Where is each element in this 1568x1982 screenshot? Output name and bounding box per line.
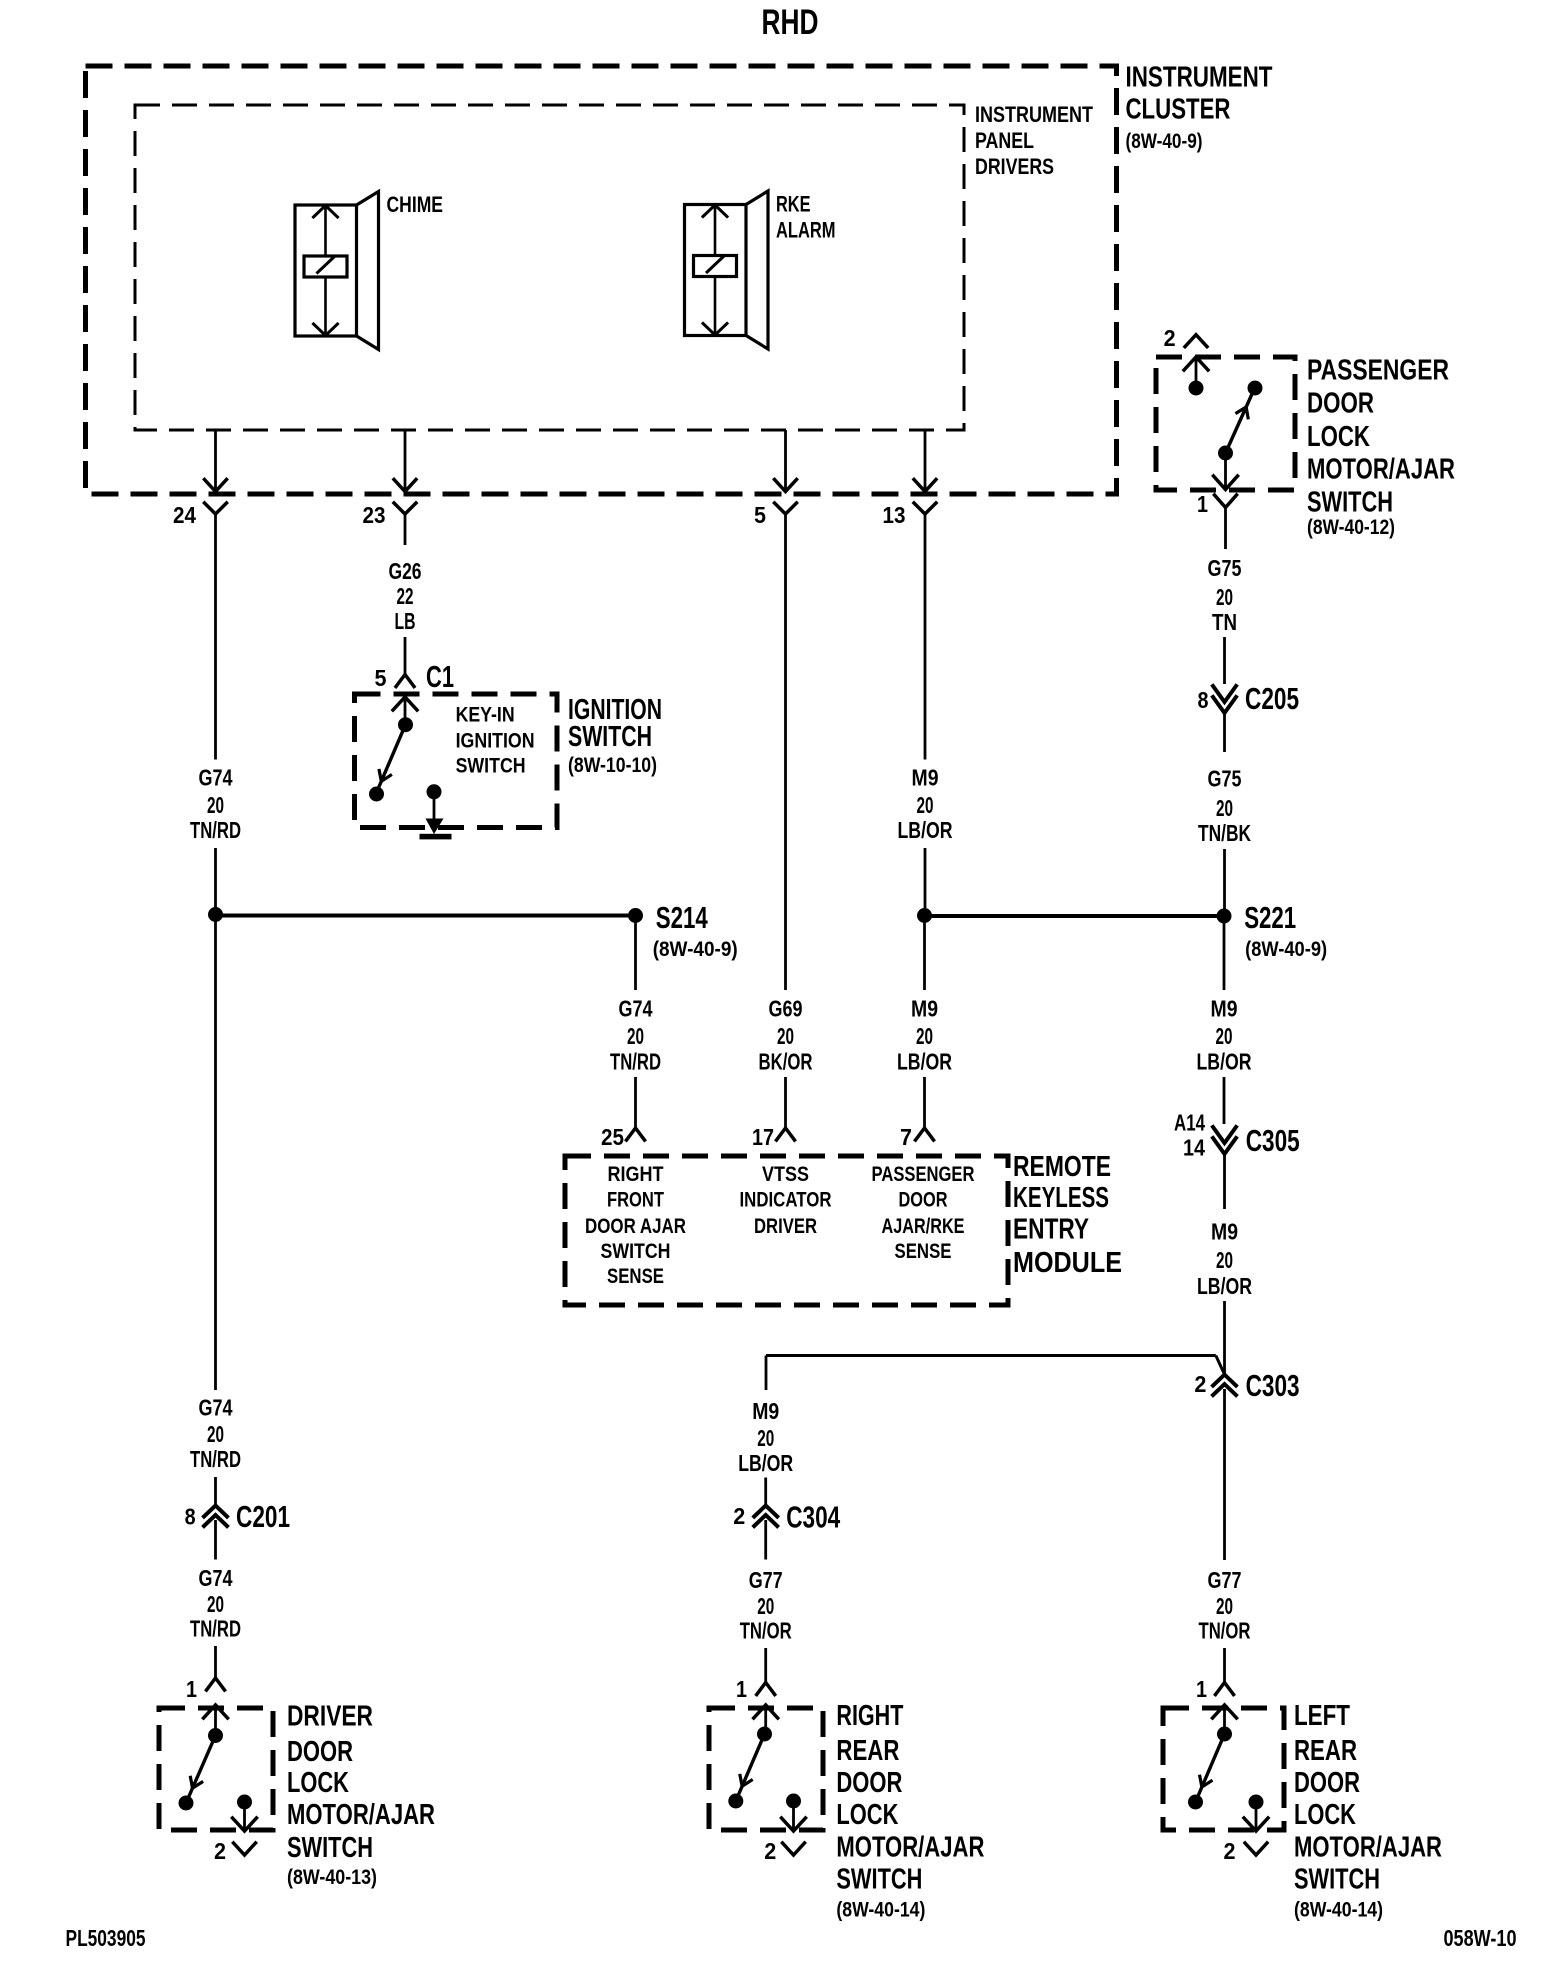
label REMOTE KEYLESS ENTRY MODULE — [1013, 1151, 1122, 1279]
svg-text:TN: TN — [1212, 609, 1237, 635]
passenger switch lower dot — [1218, 446, 1233, 461]
key-in ignition switch box — [355, 694, 558, 828]
wire to right rear door switch — [764, 1648, 767, 1683]
svg-text:LB/OR: LB/OR — [738, 1450, 793, 1476]
right rear door lock motor/ajar switch box — [709, 1708, 823, 1830]
instrument cluster outer box — [86, 66, 1117, 494]
svg-text:C205: C205 — [1245, 681, 1299, 716]
splice junction dot on G74 — [208, 907, 223, 922]
svg-text:SWITCH: SWITCH — [568, 721, 652, 753]
svg-text:LEFT: LEFT — [1294, 1700, 1350, 1732]
svg-text:BK/OR: BK/OR — [759, 1049, 813, 1075]
svg-text:20: 20 — [757, 1425, 774, 1451]
pin 2 stub below driver box — [234, 1843, 256, 1855]
splice dot S214 — [628, 908, 643, 923]
svg-text:TN/RD: TN/RD — [610, 1049, 661, 1075]
wire G26 segment — [404, 514, 407, 545]
wire below C304 — [764, 1520, 767, 1560]
svg-text:DRIVERS: DRIVERS — [975, 154, 1054, 179]
svg-text:1: 1 — [736, 1676, 747, 1702]
wire label G26 22 LB — [389, 558, 422, 634]
passenger door lock motor/ajar switch box — [1156, 357, 1295, 490]
svg-text:SWITCH: SWITCH — [601, 1240, 671, 1263]
wire label G74 20 TN/RD (S214 branch) — [610, 996, 661, 1075]
driver switch common dot — [208, 1728, 223, 1743]
svg-text:SWITCH: SWITCH — [836, 1864, 922, 1896]
driver switch pin 1 arrow — [204, 1705, 228, 1736]
svg-text:G75: G75 — [1208, 555, 1242, 581]
svg-text:C305: C305 — [1246, 1123, 1300, 1158]
ignition switch common dot — [398, 717, 413, 732]
wire below S221 — [1223, 916, 1226, 990]
label IGNITION SWITCH (8W-10-10) — [568, 694, 662, 777]
svg-text:20: 20 — [917, 792, 934, 818]
wire label M9 20 LB/OR (upper) — [898, 765, 953, 844]
svg-text:SWITCH: SWITCH — [287, 1832, 373, 1864]
svg-text:SWITCH: SWITCH — [1294, 1864, 1380, 1896]
right rear switch pin 2 dot — [786, 1794, 801, 1809]
svg-text:TN/OR: TN/OR — [740, 1618, 792, 1644]
svg-text:REAR: REAR — [836, 1735, 899, 1767]
wire to RKE pin 7 — [923, 1077, 926, 1128]
svg-text:REMOTE: REMOTE — [1013, 1151, 1111, 1183]
svg-text:LB/OR: LB/OR — [897, 1049, 952, 1075]
wire below M9 splice — [923, 916, 926, 990]
svg-text:G77: G77 — [749, 1567, 783, 1593]
connector C305 chevrons — [1213, 1127, 1236, 1143]
svg-text:2: 2 — [733, 1503, 745, 1529]
svg-text:5: 5 — [754, 502, 766, 528]
svg-text:C304: C304 — [786, 1500, 841, 1535]
svg-text:13: 13 — [883, 502, 906, 528]
svg-text:G75: G75 — [1208, 766, 1242, 792]
svg-text:MOTOR/AJAR: MOTOR/AJAR — [836, 1832, 984, 1864]
remote keyless entry module box — [565, 1156, 1008, 1305]
pin 25 fork at RKE module — [627, 1128, 645, 1140]
left rear switch pin 2 dot — [1249, 1795, 1264, 1810]
svg-text:INDICATOR: INDICATOR — [740, 1189, 832, 1212]
svg-text:S214: S214 — [656, 900, 709, 935]
pin 1 fork below passenger box — [1215, 495, 1237, 508]
wire below C303 — [1223, 1389, 1226, 1560]
svg-text:DOOR: DOOR — [836, 1767, 902, 1799]
pin 13 connector fork — [914, 503, 936, 514]
svg-text:(8W-40-9): (8W-40-9) — [653, 938, 738, 961]
connector C304 chevrons — [754, 1506, 777, 1517]
label LEFT REAR DOOR LOCK MOTOR/AJAR SWITCH (8W-40-14) — [1294, 1700, 1442, 1922]
svg-text:(8W-10-10): (8W-10-10) — [568, 754, 657, 777]
svg-text:MODULE: MODULE — [1013, 1247, 1122, 1279]
svg-text:IGNITION: IGNITION — [456, 730, 535, 753]
RKE alarm speaker symbol — [685, 191, 769, 349]
left rear switch blade — [1196, 1734, 1225, 1802]
svg-text:(8W-40-9): (8W-40-9) — [1126, 130, 1203, 153]
left rear switch throw dot — [1188, 1795, 1203, 1810]
driver switch throw dot — [179, 1796, 194, 1811]
svg-text:LB/OR: LB/OR — [1197, 1049, 1252, 1075]
left rear door lock motor/ajar switch box — [1163, 1708, 1284, 1830]
svg-text:S221: S221 — [1244, 900, 1296, 935]
svg-text:MOTOR/AJAR: MOTOR/AJAR — [1307, 454, 1455, 486]
svg-text:14: 14 — [1183, 1135, 1205, 1161]
left rear switch pin 2 arrow out — [1244, 1802, 1268, 1831]
wire above C303 — [1223, 1301, 1226, 1374]
svg-text:M9: M9 — [1211, 1219, 1238, 1245]
label DRIVER DOOR LOCK MOTOR/AJAR SWITCH (8W-40-13) — [287, 1701, 435, 1890]
svg-text:CLUSTER: CLUSTER — [1126, 94, 1231, 126]
svg-text:20: 20 — [916, 1023, 933, 1049]
svg-text:PL503905: PL503905 — [66, 1925, 146, 1951]
svg-text:G69: G69 — [769, 996, 803, 1022]
pin 2 stub above passenger box — [1185, 335, 1207, 347]
svg-text:2: 2 — [1194, 1371, 1206, 1397]
svg-text:PANEL: PANEL — [975, 128, 1034, 153]
svg-text:23: 23 — [363, 502, 386, 528]
svg-text:KEYLESS: KEYLESS — [1013, 1182, 1109, 1214]
splice line S221 — [925, 914, 1225, 918]
label S214 (8W-40-9) — [653, 900, 738, 961]
label RKE ALARM — [776, 192, 836, 243]
svg-text:2: 2 — [1224, 1838, 1236, 1864]
wire below S214 — [634, 916, 637, 991]
svg-text:(8W-40-9): (8W-40-9) — [1245, 938, 1327, 961]
wire above C201 — [214, 1477, 217, 1506]
wire below splice — [214, 916, 217, 1391]
svg-text:PASSENGER: PASSENGER — [1307, 355, 1449, 387]
splice dot S221 — [1217, 909, 1232, 924]
wire to splice S221 — [1223, 849, 1226, 916]
pin 17 fork at RKE module — [777, 1128, 795, 1140]
svg-text:LOCK: LOCK — [1294, 1799, 1356, 1831]
svg-text:1: 1 — [1197, 491, 1208, 517]
svg-text:24: 24 — [173, 502, 196, 528]
svg-text:MOTOR/AJAR: MOTOR/AJAR — [287, 1799, 435, 1831]
svg-text:7: 7 — [900, 1124, 912, 1150]
svg-text:2: 2 — [764, 1838, 776, 1864]
wire label G75 20 TN — [1208, 555, 1242, 635]
pin 23 connector fork — [394, 503, 416, 514]
label PASSENGER DOOR AJAR/RKE SENSE — [872, 1163, 975, 1263]
svg-text:SWITCH: SWITCH — [456, 755, 526, 778]
label VTSS INDICATOR DRIVER — [740, 1163, 832, 1238]
wire below C201 — [214, 1520, 217, 1560]
svg-text:PASSENGER: PASSENGER — [872, 1163, 975, 1186]
pin 5 connector fork — [775, 503, 797, 514]
svg-text:RIGHT: RIGHT — [608, 1163, 664, 1186]
svg-text:G74: G74 — [199, 1565, 233, 1591]
svg-text:C303: C303 — [1246, 1368, 1300, 1403]
svg-text:20: 20 — [1216, 584, 1233, 610]
passenger switch common dot — [1189, 381, 1204, 396]
connector C201 chevrons — [204, 1506, 227, 1517]
wire above C205 — [1223, 637, 1226, 684]
wire to splice S214 — [214, 848, 217, 916]
wire G74 upper segment — [214, 514, 217, 760]
svg-text:REAR: REAR — [1294, 1735, 1357, 1767]
wire to RKE pin 25 — [634, 1077, 637, 1128]
svg-text:20: 20 — [777, 1023, 794, 1049]
label INSTRUMENT PANEL DRIVERS — [975, 102, 1093, 179]
svg-text:25: 25 — [601, 1124, 624, 1150]
svg-text:LB/OR: LB/OR — [1197, 1273, 1252, 1299]
svg-text:LB/OR: LB/OR — [898, 817, 953, 843]
svg-text:8: 8 — [185, 1504, 196, 1530]
chime speaker symbol — [295, 192, 379, 350]
svg-text:C201: C201 — [236, 1499, 290, 1534]
svg-text:TN/BK: TN/BK — [1198, 820, 1251, 846]
wire below C205 — [1223, 712, 1226, 752]
svg-text:SENSE: SENSE — [607, 1265, 664, 1288]
wire to RKE pin 17 — [784, 1077, 787, 1128]
connector C1 fork — [396, 675, 414, 687]
label RIGHT FRONT DOOR AJAR SWITCH SENSE — [585, 1163, 686, 1288]
right rear switch pin 1 arrow — [754, 1705, 778, 1734]
branch wire from C303 junction — [766, 1356, 1224, 1391]
wire above C305 — [1223, 1077, 1226, 1124]
right rear switch pin 2 arrow out — [782, 1801, 806, 1831]
svg-text:20: 20 — [757, 1593, 774, 1619]
svg-text:RIGHT: RIGHT — [836, 1700, 903, 1732]
wire to C1 — [404, 637, 407, 675]
cluster pin 5 exit wire — [775, 430, 797, 492]
svg-text:058W-10: 058W-10 — [1444, 1925, 1517, 1951]
ignition ground stem and solid arrow — [420, 792, 452, 840]
wire M9 upper segment — [924, 514, 927, 760]
label INSTRUMENT CLUSTER (8W-40-9) — [1126, 62, 1273, 154]
wire label G77 20 TN/OR (left rear) — [1199, 1567, 1251, 1644]
svg-text:M9: M9 — [752, 1398, 779, 1424]
svg-text:DOOR: DOOR — [1307, 388, 1374, 420]
svg-text:SENSE: SENSE — [895, 1240, 952, 1263]
svg-text:DOOR AJAR: DOOR AJAR — [585, 1215, 686, 1238]
wire label M9 20 LB/OR (lower) — [897, 996, 952, 1075]
pin 1 fork at right rear box — [757, 1683, 775, 1695]
svg-text:TN/RD: TN/RD — [190, 1446, 241, 1472]
splice junction dot on M9 — [917, 908, 932, 923]
svg-text:20: 20 — [1216, 1593, 1233, 1619]
ignition switch throw dot — [369, 787, 384, 802]
svg-text:LOCK: LOCK — [1307, 421, 1370, 453]
svg-text:ALARM: ALARM — [776, 218, 836, 243]
svg-text:1: 1 — [1196, 1676, 1207, 1702]
svg-text:M9: M9 — [911, 996, 938, 1022]
wire to splice S221 — [924, 848, 927, 916]
wire label G77 20 TN/OR (right rear) — [740, 1567, 792, 1644]
svg-text:KEY-IN: KEY-IN — [456, 704, 515, 727]
driver switch pin 2 dot — [237, 1795, 252, 1810]
svg-text:INSTRUMENT: INSTRUMENT — [975, 102, 1093, 127]
svg-text:20: 20 — [207, 792, 224, 818]
wire label M9 20 LB/OR (right upper) — [1197, 996, 1252, 1075]
label PASSENGER DOOR LOCK MOTOR/AJAR SWITCH (8W-40-12) — [1307, 355, 1455, 540]
wire G69 segment — [784, 514, 787, 990]
svg-text:5: 5 — [375, 665, 387, 691]
splice line S214 — [216, 914, 636, 918]
svg-text:TN/RD: TN/RD — [190, 817, 241, 843]
passenger switch pin 1 arrow out — [1214, 453, 1238, 490]
svg-text:DOOR: DOOR — [899, 1189, 948, 1212]
svg-text:FRONT: FRONT — [607, 1189, 664, 1212]
svg-text:INSTRUMENT: INSTRUMENT — [1126, 62, 1273, 94]
wire to left rear door switch — [1223, 1648, 1226, 1683]
driver switch pin 2 arrow out — [233, 1802, 257, 1831]
right rear switch blade — [736, 1734, 765, 1801]
svg-text:20: 20 — [627, 1023, 644, 1049]
svg-text:G26: G26 — [389, 558, 422, 584]
cluster pin 24 exit wire — [205, 430, 227, 492]
pin 7 fork at RKE module — [916, 1128, 934, 1140]
svg-text:AJAR/RKE: AJAR/RKE — [882, 1215, 965, 1238]
pin 2 stub below right rear box — [783, 1843, 805, 1855]
svg-text:G74: G74 — [619, 996, 653, 1022]
ignition ground-side dot — [427, 784, 442, 799]
svg-text:DRIVER: DRIVER — [754, 1215, 817, 1238]
pin A14 14 labels at C305 — [1174, 1110, 1205, 1161]
wire label G74 20 TN/RD (2) — [190, 1395, 241, 1473]
svg-text:TN/RD: TN/RD — [190, 1616, 241, 1642]
svg-text:LOCK: LOCK — [287, 1767, 349, 1799]
connector C303 chevrons — [1213, 1375, 1236, 1386]
pin 24 connector fork — [205, 503, 227, 514]
svg-text:LB: LB — [395, 608, 416, 634]
cluster pin 13 exit wire — [914, 430, 936, 492]
svg-text:MOTOR/AJAR: MOTOR/AJAR — [1294, 1832, 1442, 1864]
svg-text:DRIVER: DRIVER — [287, 1701, 373, 1733]
svg-text:(8W-40-14): (8W-40-14) — [1294, 1899, 1383, 1922]
right rear switch throw dot — [728, 1794, 743, 1809]
wire label G74 20 TN/RD (3) — [190, 1565, 241, 1642]
svg-text:M9: M9 — [912, 765, 939, 791]
svg-text:20: 20 — [207, 1591, 224, 1617]
pin 2 stub below left rear box — [1245, 1843, 1267, 1855]
svg-text:22: 22 — [397, 583, 414, 609]
passenger switch upper throw dot — [1248, 381, 1263, 396]
wire label G69 20 BK/OR — [759, 996, 813, 1075]
svg-text:20: 20 — [1216, 1247, 1233, 1273]
svg-text:G77: G77 — [1208, 1567, 1242, 1593]
svg-text:20: 20 — [1216, 1023, 1233, 1049]
svg-text:1: 1 — [186, 1676, 197, 1702]
svg-text:A14: A14 — [1174, 1110, 1205, 1136]
left rear switch pin 1 arrow — [1213, 1705, 1237, 1734]
connector C205 chevrons — [1213, 686, 1236, 702]
svg-text:20: 20 — [207, 1421, 224, 1447]
wire label M9 20 LB/OR (branch) — [738, 1398, 793, 1476]
svg-text:DOOR: DOOR — [287, 1736, 353, 1768]
svg-text:ENTRY: ENTRY — [1013, 1214, 1089, 1246]
driver door lock motor/ajar switch box — [159, 1708, 273, 1830]
svg-text:CHIME: CHIME — [387, 192, 444, 217]
wire G75 segment below passenger — [1224, 508, 1227, 550]
svg-text:8: 8 — [1198, 687, 1209, 713]
svg-text:(8W-40-12): (8W-40-12) — [1307, 516, 1395, 539]
svg-text:LOCK: LOCK — [836, 1799, 898, 1831]
wire below C305 — [1223, 1153, 1226, 1209]
svg-text:17: 17 — [752, 1124, 774, 1150]
instrument panel drivers inner box — [135, 105, 964, 430]
svg-text:SWITCH: SWITCH — [1307, 487, 1393, 519]
passenger switch blade — [1226, 394, 1253, 453]
ignition switch blade — [378, 725, 406, 789]
label KEY-IN IGNITION SWITCH — [456, 704, 535, 778]
driver switch blade — [186, 1736, 216, 1804]
svg-text:TN/OR: TN/OR — [1199, 1618, 1251, 1644]
svg-text:(8W-40-13): (8W-40-13) — [287, 1866, 377, 1889]
wire label G75 20 TN/BK — [1198, 766, 1251, 847]
right rear switch common dot — [757, 1727, 772, 1742]
passenger switch pin 2 arrow — [1184, 357, 1208, 388]
wire label M9 20 LB/OR (right lower) — [1197, 1219, 1252, 1300]
svg-text:RKE: RKE — [776, 192, 811, 217]
label RIGHT REAR DOOR LOCK MOTOR/AJAR SWITCH (8W-40-14) — [836, 1700, 984, 1922]
svg-text:VTSS: VTSS — [762, 1163, 809, 1186]
label S221 (8W-40-9) — [1244, 900, 1327, 961]
svg-text:G74: G74 — [199, 765, 233, 791]
svg-text:(8W-40-14): (8W-40-14) — [836, 1899, 925, 1922]
svg-text:2: 2 — [1164, 325, 1176, 351]
ignition pin 5 arrow — [393, 697, 417, 725]
svg-text:2: 2 — [214, 1838, 226, 1864]
wire to driver door switch — [214, 1646, 217, 1678]
wire above C304 — [764, 1478, 767, 1506]
wire label G74 20 TN/RD (1) — [190, 765, 241, 844]
svg-text:G74: G74 — [199, 1395, 233, 1421]
svg-text:DOOR: DOOR — [1294, 1767, 1360, 1799]
svg-text:20: 20 — [1216, 795, 1233, 821]
svg-text:RHD: RHD — [762, 3, 819, 42]
svg-text:M9: M9 — [1211, 996, 1238, 1022]
pin 1 fork at left rear box — [1216, 1683, 1234, 1695]
pin 1 fork at driver door box — [207, 1678, 225, 1690]
svg-text:C1: C1 — [426, 659, 454, 694]
cluster pin 23 exit wire — [394, 430, 416, 492]
left rear switch common dot — [1217, 1727, 1232, 1742]
